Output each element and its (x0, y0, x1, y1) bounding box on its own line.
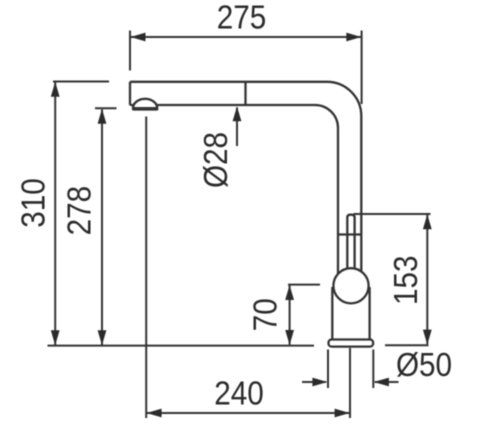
base flange (329, 340, 374, 347)
faucet spout inner outline (130, 105, 338, 274)
spray head divider (244, 82, 246, 105)
dim 240 dimension line (147, 412, 349, 414)
dia28 arrowhead (233, 106, 242, 121)
lever handle (347, 215, 354, 269)
dim 310 dimension line (54, 83, 56, 346)
dia50 right extension line (372, 350, 374, 389)
dia28 leader line (236, 108, 238, 147)
dim 278 dimension line (101, 110, 103, 346)
dim 70 top tick (288, 284, 320, 286)
swivel joint circle (333, 268, 368, 303)
dim 70 top arrowhead (285, 285, 294, 300)
dim 275 right extension line (361, 31, 363, 105)
dim 70 bottom arrowhead (285, 330, 294, 345)
body left side (331, 287, 333, 339)
dia50 right arrow line (375, 381, 399, 383)
dim 240 right extension line (349, 348, 351, 418)
svg-text:Ø28: Ø28 (198, 132, 235, 188)
dim 310 bottom arrowhead (51, 330, 60, 345)
dim 240 left arrowhead (147, 409, 162, 418)
svg-text:153: 153 (388, 256, 425, 306)
baseline right segment (385, 344, 429, 346)
dim 240 right arrowhead (335, 409, 350, 418)
body joint line (339, 233, 362, 235)
dim 275 dimension line (131, 36, 361, 38)
dim 278 bottom arrowhead (98, 330, 107, 345)
dia50 left arrow line (302, 381, 326, 383)
dim 275 left arrowhead (131, 33, 146, 42)
spout left end edge (129, 82, 131, 105)
baseline left segment (48, 345, 315, 347)
dim 153 top arrowhead (423, 214, 432, 229)
dim 275 left extension line (129, 31, 131, 71)
svg-text:275: 275 (217, 0, 267, 36)
svg-text:240: 240 (214, 375, 264, 412)
dia50 right arrowhead (374, 378, 389, 387)
dim 310 top arrowhead (51, 82, 60, 97)
svg-text:70: 70 (247, 298, 284, 331)
dim 275 right arrowhead (346, 33, 361, 42)
dia50 left extension line (327, 350, 329, 389)
aerator base bar (134, 107, 157, 111)
dim 278 top tick (95, 107, 117, 109)
dim 153 bottom arrowhead (423, 330, 432, 345)
dim 153 top tick (354, 213, 431, 215)
body right side (368, 287, 370, 339)
svg-text:Ø50: Ø50 (396, 347, 452, 384)
aerator dome (133, 99, 157, 109)
svg-text:278: 278 (61, 186, 98, 236)
dim 70 dimension line (289, 286, 291, 345)
faucet spout outer outline (130, 82, 361, 273)
dim 153 dimension line (426, 215, 428, 344)
dim 278 top arrowhead (98, 109, 107, 124)
dim 310 top tick (53, 81, 109, 83)
svg-text:310: 310 (15, 178, 52, 228)
dim 240 left extension line (145, 117, 147, 419)
dia50 left arrowhead (312, 378, 327, 387)
